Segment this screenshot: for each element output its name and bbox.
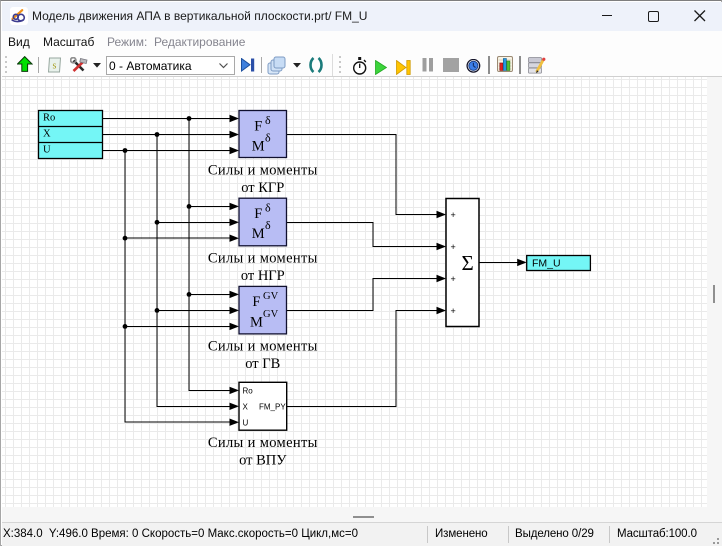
wire U to KGR [103,150,232,152]
block NGR forces [239,198,287,246]
green up arrow icon [17,56,33,72]
minimize button [602,15,612,16]
wire GV out to sum [287,279,439,311]
fast-forward icon [396,60,411,75]
clock icon [466,59,481,73]
label NGR [208,251,318,285]
wire Ro branch to NGR [189,205,231,207]
toolbar grip 1 [4,55,10,75]
wire X branch to GV [157,309,231,311]
layers icon [267,56,286,75]
wire KGR out to sum [287,135,439,215]
svg-text:s: s [53,61,57,72]
toolbar separator [38,57,39,73]
block GV forces [239,286,287,334]
play icon [375,60,387,75]
toolbar [2,53,722,77]
toolbar separator [519,56,521,74]
wire U vertical bus [125,151,231,423]
wire sum out to FM_U [479,261,518,263]
wire X vertical bus [157,135,231,407]
label VPU [208,435,318,469]
toolbar separator [261,57,262,73]
wire Ro vertical bus [189,119,231,391]
run-to icon [241,58,256,72]
canvas grid [2,77,707,507]
pause icon [422,58,434,72]
block KGR forces [239,111,287,158]
wire NGR out to sum [287,222,439,246]
label KGR [208,163,318,197]
wire VPU out to sum [287,311,438,407]
app icon [10,7,28,25]
label GV [208,339,318,373]
maximize button [648,11,659,22]
junction dots [123,116,192,329]
summator block [446,199,479,327]
wire Ro to KGR [103,118,232,120]
stopwatch icon [352,56,369,77]
output port block FM_U [527,256,591,271]
status bar [2,522,722,546]
block VPU FM_PY [239,382,287,430]
toolbar separator [488,56,490,74]
hammer-wrench icon [70,57,88,73]
wire U branch to GV [125,325,231,327]
wire U branch to NGR [125,237,231,239]
menu bar [2,31,722,53]
close button [694,10,706,22]
wire X branch to NGR [157,221,231,223]
toolbar panel edge [332,54,333,76]
scrollbars [707,77,722,507]
wire X to KGR [103,134,232,136]
toolbar grip 2 [338,55,344,75]
report icon [528,57,546,74]
chart icon [497,56,513,72]
dropdown arrow 2 [293,63,301,68]
wire Ro branch to GV [189,293,231,295]
port arrowheads [230,115,527,426]
dropdown arrow 1 [93,63,101,68]
combo box [106,56,235,75]
stop icon [443,58,459,72]
script icon [47,57,62,73]
input port block Ro/X/U [39,111,103,159]
parentheses icon [308,57,324,73]
title bar [2,2,722,31]
